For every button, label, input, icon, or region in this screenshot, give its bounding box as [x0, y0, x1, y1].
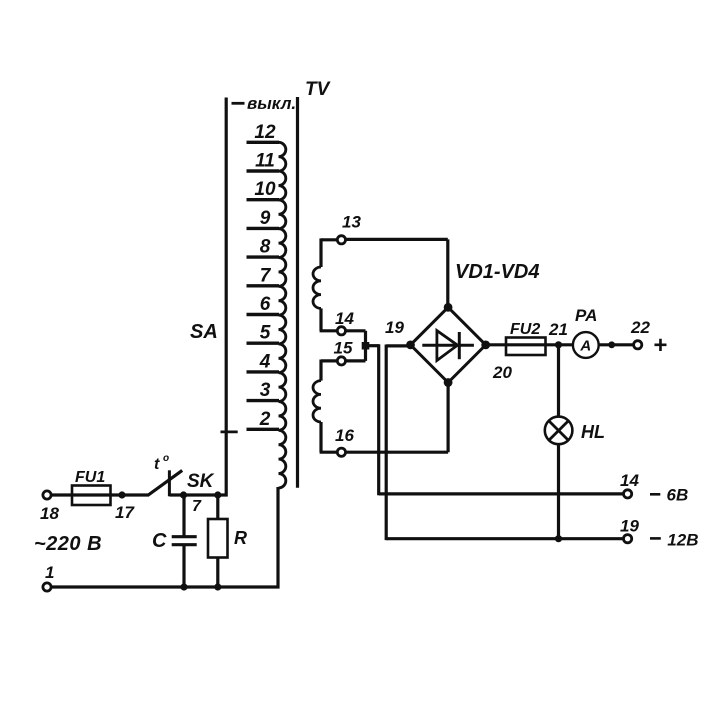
wire up to primary coil: [276, 487, 279, 589]
label SK: [187, 471, 215, 492]
core line TV: [296, 97, 299, 488]
node R top: [214, 491, 221, 498]
switch bus SA: [225, 98, 228, 497]
tap 12 line: [247, 141, 280, 144]
wire lamp to -12V rail: [557, 444, 560, 539]
centre-tap junction: [362, 342, 370, 350]
SK fixed contact post: [168, 470, 171, 496]
svg-text:t: t: [154, 456, 160, 473]
svg-text:+: +: [653, 332, 667, 359]
svg-text:11: 11: [255, 151, 275, 172]
wire bridge minus to -12V rail: [386, 345, 623, 541]
label t deg: [154, 453, 169, 473]
svg-text:PA: PA: [575, 306, 597, 325]
svg-text:9: 9: [260, 208, 271, 229]
tap 3 line: [247, 399, 280, 402]
wire centre tap to -6V rail: [366, 344, 623, 495]
thermal switch SK blade: [148, 470, 183, 495]
terminal 13: [337, 213, 361, 244]
terminal 19 output: [620, 517, 639, 543]
capacitor C: [152, 530, 197, 552]
off-position dash: [232, 102, 245, 105]
wire 15 to winding: [321, 360, 338, 381]
svg-text:TV: TV: [305, 79, 331, 100]
svg-text:FU2: FU2: [510, 321, 540, 338]
tap 3 label: [260, 380, 271, 401]
tap 5 label: [260, 323, 271, 344]
terminal 18: [40, 491, 59, 523]
ammeter PA: [573, 306, 599, 358]
wire 14 to centre tap: [345, 331, 365, 346]
bridge vertex left: [406, 341, 415, 350]
svg-text:C: C: [152, 530, 167, 552]
svg-text:A: A: [579, 338, 591, 355]
plus sign: [653, 332, 667, 359]
primary winding TV: [279, 142, 286, 488]
tap 8 line: [247, 255, 280, 258]
svg-text:14: 14: [335, 309, 354, 328]
wire 15 to centre tap: [345, 347, 365, 361]
label TV: [305, 79, 331, 100]
svg-text:15: 15: [334, 339, 353, 358]
node R bottom: [214, 583, 221, 590]
label ~220 V: [34, 533, 102, 555]
wire C to bottom: [182, 546, 185, 588]
tap 7 label: [260, 265, 272, 286]
secondary winding 15-16: [313, 381, 321, 422]
bottom wire: [51, 585, 280, 588]
position-2 tick: [221, 430, 238, 433]
tap 2 line: [247, 428, 280, 431]
svg-text:1: 1: [45, 563, 54, 582]
bridge diode: [422, 331, 474, 361]
svg-text:13: 13: [342, 213, 361, 232]
tap 11 label: [255, 151, 275, 172]
svg-text:19: 19: [385, 318, 404, 337]
svg-text:4: 4: [259, 351, 271, 372]
svg-text:~220 В: ~220 В: [34, 533, 102, 555]
label SA: [190, 321, 218, 343]
wire PA to 22: [599, 343, 634, 346]
label 20: [492, 363, 512, 382]
terminal 1: [43, 563, 55, 591]
tap 6 line: [247, 313, 280, 316]
svg-text:18: 18: [40, 504, 59, 523]
terminal 22: [630, 318, 650, 349]
svg-text:выкл.: выкл.: [247, 94, 296, 113]
svg-text:17: 17: [115, 503, 135, 522]
tap 8 label: [260, 237, 271, 258]
wire 16 to bridge: [345, 382, 448, 452]
label vykl: [247, 94, 296, 113]
bridge vertex right: [481, 341, 490, 350]
svg-text:2: 2: [259, 409, 271, 430]
terminal 15: [334, 339, 353, 366]
svg-text:3: 3: [260, 380, 271, 401]
wire 13 to bridge top: [346, 239, 448, 307]
tap 5 line: [247, 342, 280, 345]
svg-text:7: 7: [260, 265, 272, 286]
secondary winding 13-14: [313, 267, 321, 308]
svg-text:6: 6: [260, 294, 271, 315]
svg-text:6В: 6В: [667, 486, 689, 505]
wire 18 to FU1: [51, 493, 72, 496]
terminal 16: [335, 426, 354, 456]
wire SK to SA bus: [170, 493, 228, 496]
tap 4 label: [259, 351, 271, 372]
tap 9 line: [247, 227, 280, 230]
svg-text:8: 8: [260, 237, 271, 258]
svg-text:HL: HL: [581, 422, 605, 442]
node 19 label: [385, 318, 404, 337]
node after PA: [608, 341, 615, 348]
tap 11 line: [247, 169, 280, 172]
bridge vertex bottom: [444, 378, 453, 387]
bridge label: [455, 261, 539, 283]
svg-text:R: R: [234, 528, 247, 548]
svg-text:22: 22: [630, 318, 650, 337]
tap 6 label: [260, 294, 271, 315]
tap 7 line: [247, 284, 280, 287]
svg-text:VD1-VD4: VD1-VD4: [455, 261, 539, 283]
svg-text:FU1: FU1: [75, 469, 105, 486]
wire node7 down to C: [182, 494, 185, 537]
wire R-node down to R: [216, 494, 219, 520]
tap 12 label: [254, 122, 276, 143]
label -12V: [650, 531, 698, 550]
bridge VD1-VD4 diamond: [411, 307, 486, 382]
svg-text:16: 16: [335, 426, 354, 445]
svg-text:5: 5: [260, 323, 271, 344]
wire 13 to winding: [321, 238, 338, 267]
wire FU1 to node 17: [111, 493, 149, 496]
wire FU2 to node 21: [546, 343, 574, 346]
svg-text:12: 12: [254, 122, 276, 143]
node C bottom: [180, 583, 187, 590]
terminal 14: [335, 309, 354, 335]
node 17: [115, 491, 135, 522]
svg-text:21: 21: [548, 320, 568, 339]
bridge vertex top: [444, 303, 453, 312]
svg-text:10: 10: [254, 179, 276, 200]
svg-text:SK: SK: [187, 471, 215, 492]
node 7 cap top: [180, 491, 202, 515]
resistor R: [208, 519, 247, 558]
lamp HL: [545, 417, 605, 445]
tap 10 label: [254, 179, 276, 200]
svg-text:19: 19: [620, 517, 639, 536]
tap 10 line: [247, 198, 280, 201]
label -6V: [650, 486, 688, 505]
fuse FU1: [72, 469, 111, 505]
svg-text:o: o: [163, 453, 169, 464]
tap 9 label: [260, 208, 271, 229]
tap 2 label: [259, 409, 271, 430]
wire winding to 14: [320, 308, 338, 330]
wire winding to 16: [320, 422, 338, 452]
fuse FU2: [506, 321, 546, 355]
svg-text:20: 20: [492, 363, 512, 382]
wire bridge to FU2: [484, 343, 506, 346]
svg-text:SA: SA: [190, 321, 218, 343]
svg-text:12В: 12В: [667, 531, 698, 550]
tap 4 line: [247, 370, 280, 373]
terminal 14 output: [620, 471, 639, 498]
svg-text:14: 14: [620, 471, 639, 490]
wire 21 down to lamp: [557, 346, 560, 417]
svg-text:7: 7: [192, 498, 202, 515]
node 21: [548, 320, 568, 348]
node lamp rail: [555, 535, 562, 542]
wire R to bottom: [216, 558, 219, 589]
